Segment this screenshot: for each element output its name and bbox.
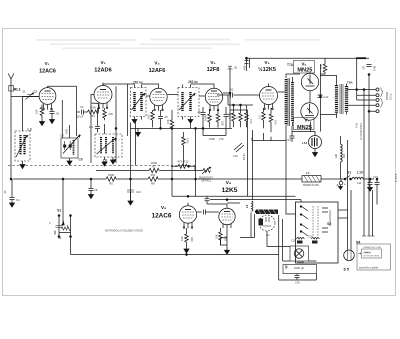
- buffer capacitor C7b: [283, 265, 316, 285]
- svg-text:470: 470: [319, 64, 323, 69]
- svg-text:C20: C20: [308, 236, 313, 239]
- svg-text:22K: 22K: [109, 112, 114, 116]
- svg-text:V₅: V₅: [264, 60, 269, 65]
- wire V1 plate: [48, 85, 77, 87]
- resistor R5 on A+ bus: [106, 173, 116, 186]
- page scan edge frame: [3, 29, 396, 296]
- spark plate L7: [302, 171, 321, 187]
- resistor R23: [182, 132, 189, 166]
- svg-text:12K5: 12K5: [222, 187, 238, 194]
- wire V4 screen row: [203, 128, 226, 135]
- tube V3 12AF6: [149, 61, 168, 111]
- svg-text:SPARK PLATE: SPARK PLATE: [303, 184, 319, 187]
- capacitor C8 agc: [89, 179, 98, 199]
- wire V9 plate coupling: [197, 196, 227, 214]
- svg-text:▮▮▮▮▮▮: ▮▮▮▮▮▮: [364, 251, 371, 254]
- wire vibrator to lamp: [267, 231, 290, 247]
- svg-text:A 4 OHM SPKR: A 4 OHM SPKR: [360, 123, 363, 140]
- capacitor C15: [368, 175, 380, 205]
- wire V3 plate: [167, 94, 178, 96]
- svg-text:400: 400: [342, 153, 346, 158]
- capacitor C48: [362, 65, 377, 76]
- resistor R12: [171, 127, 196, 196]
- svg-text:12AC6: 12AC6: [152, 213, 172, 220]
- svg-text:360: 360: [151, 173, 156, 177]
- wire antenna down-lead: [11, 97, 40, 180]
- wire filament A+ bus y179: [13, 178, 374, 180]
- wire V2 grid return: [90, 103, 92, 163]
- vibrator buffer leads: [279, 215, 283, 261]
- choke RF1: [291, 238, 304, 244]
- svg-text:45B+: 45B+: [244, 64, 247, 70]
- capacitor C14: [286, 126, 311, 142]
- wire upper coupling bus: [172, 196, 301, 203]
- svg-text:C19: C19: [291, 240, 296, 243]
- transformer T7: [286, 63, 300, 126]
- IF transformer T5: [178, 80, 199, 123]
- svg-text:SPKR: SPKR: [385, 91, 389, 100]
- svg-text:R2: R2: [58, 236, 62, 240]
- volume control R2: [49, 179, 71, 240]
- svg-text:262 kc: 262 kc: [133, 81, 143, 85]
- tube V9 12AC6: [152, 203, 197, 229]
- switch S1: [344, 171, 351, 180]
- junction dots on A+ bus: [62, 178, 64, 180]
- svg-text:47K: 47K: [166, 119, 170, 124]
- resistor R15: [235, 110, 243, 127]
- svg-text:470K: 470K: [228, 113, 232, 119]
- svg-text:C 15 A: C 15 A: [394, 173, 398, 182]
- choke RF2: [308, 236, 319, 244]
- svg-text:2.2: 2.2: [258, 115, 262, 119]
- wire to V2 grid: [91, 95, 99, 113]
- resistor R7: [149, 161, 159, 173]
- chassis dashed line: [8, 165, 196, 167]
- svg-text:C48: C48: [373, 65, 377, 71]
- wire plate supply verticals: [248, 130, 253, 200]
- tube V7 MN25: [297, 103, 318, 131]
- svg-text:C1: C1: [16, 198, 20, 202]
- svg-text:5-80: 5-80: [66, 129, 69, 134]
- resistor R22 100K: [283, 260, 317, 264]
- capacitor C13: [318, 95, 329, 99]
- svg-text:47K: 47K: [219, 137, 224, 141]
- svg-text:22K: 22K: [221, 121, 225, 126]
- svg-text:.05: .05: [164, 115, 168, 119]
- wire V8 cathode down: [221, 230, 228, 251]
- choke L8: [245, 200, 253, 212]
- ground V9 cathode: [184, 246, 189, 253]
- IF transformer T4: [131, 81, 147, 124]
- svg-text:.05: .05: [362, 66, 366, 70]
- relay RL1: [9, 86, 21, 92]
- svg-text:L7: L7: [306, 171, 310, 175]
- wire V4 grid: [199, 95, 205, 97]
- wire volume to bus: [71, 237, 279, 255]
- svg-text:R8: R8: [151, 182, 155, 186]
- svg-text:262 kc: 262 kc: [188, 80, 198, 84]
- svg-text:10K: 10K: [180, 236, 184, 241]
- wire S4 drops: [364, 75, 373, 237]
- svg-text:C: C: [49, 222, 51, 225]
- wire vibrator leads: [240, 213, 255, 238]
- wire V4 stage bottom: [230, 110, 248, 130]
- svg-text:5 W: 5 W: [355, 123, 359, 128]
- wire AVC drop: [130, 123, 132, 202]
- svg-text:1000 μF: 1000 μF: [294, 266, 305, 270]
- resistor R21 under V4: [216, 110, 224, 128]
- svg-text:.05: .05: [197, 110, 201, 114]
- capacitor C16: [233, 143, 244, 158]
- svg-text:47K R12: 47K R12: [178, 160, 189, 164]
- resistor R20: [215, 228, 228, 245]
- svg-text:T8A: T8A: [347, 81, 354, 85]
- resistor R11 under V4: [204, 110, 212, 128]
- svg-text:12F8: 12F8: [207, 67, 220, 73]
- svg-text:BOTTOM VIEW: BOTTOM VIEW: [364, 256, 380, 258]
- wire T4 to V3 grid: [146, 95, 150, 97]
- wire S2 feeds: [286, 200, 348, 218]
- ground IF bus: [136, 128, 141, 136]
- svg-text:V₈: V₈: [226, 180, 231, 186]
- resistor R4: [88, 106, 99, 119]
- svg-text:470K: 470K: [186, 138, 189, 144]
- tube V1 12AC6: [39, 61, 56, 110]
- capacitor C22 under V4: [224, 107, 234, 128]
- battery terminal A: [337, 179, 347, 190]
- wire B+ screen stubs: [245, 58, 250, 71]
- svg-text:ADJ R13: ADJ R13: [201, 180, 211, 183]
- svg-text:3.2 Ω: 3.2 Ω: [389, 94, 393, 100]
- svg-text:VIBRATOR CONN: VIBRATOR CONN: [363, 246, 381, 249]
- svg-text:V₇: V₇: [305, 118, 310, 123]
- svg-text:150: 150: [274, 120, 278, 125]
- svg-text:R5: R5: [109, 182, 113, 186]
- svg-text:C8: C8: [94, 188, 98, 192]
- svg-text:V₃: V₃: [154, 61, 159, 66]
- speaker terminals: [347, 88, 393, 113]
- ground V1 cathode: [40, 119, 45, 126]
- svg-text:MOTOROLA GOLDEN VOICE: MOTOROLA GOLDEN VOICE: [105, 229, 143, 233]
- antenna coil L2: [15, 128, 32, 169]
- svg-text:V₉: V₉: [161, 205, 166, 211]
- tube V5 half 12K5: [258, 60, 278, 110]
- svg-text:100K: 100K: [204, 115, 208, 121]
- note legend box: [357, 244, 391, 270]
- wire AVC bus y170: [96, 170, 203, 172]
- meter S5: [344, 250, 355, 272]
- svg-text:C13: C13: [324, 95, 329, 99]
- wire B+ top bus: [247, 57, 370, 59]
- svg-text:L2: L2: [28, 128, 32, 132]
- cathode resistor R1: [35, 105, 44, 119]
- choke L9: [334, 136, 346, 179]
- wire S5 drops: [348, 140, 352, 250]
- wire V4 plate up: [223, 90, 230, 110]
- capacitor C20: [230, 66, 238, 91]
- svg-text:MN25: MN25: [297, 125, 312, 131]
- svg-text:C9: C9: [79, 158, 83, 162]
- tube V2 12AD6: [94, 60, 112, 109]
- svg-text:12AD6: 12AD6: [94, 68, 111, 74]
- svg-text:V₂: V₂: [100, 60, 105, 65]
- svg-text:.05: .05: [234, 66, 238, 70]
- label box V7: [294, 118, 315, 130]
- wire V2 screen feed: [116, 84, 128, 163]
- wire V5 plate: [278, 91, 287, 93]
- lamp J6: [290, 246, 309, 261]
- capacitor C21 under V4: [197, 107, 206, 128]
- svg-text:470: 470: [249, 119, 253, 124]
- capacitor C10: [127, 190, 141, 201]
- svg-text:.05 μF: .05 μF: [76, 115, 84, 119]
- svg-text:.05: .05: [3, 190, 7, 194]
- wire buffer bottom: [279, 261, 317, 280]
- capacitor C2A: [50, 109, 60, 117]
- svg-text:R7: R7: [152, 165, 156, 169]
- resistor R17: [258, 108, 266, 128]
- svg-text:V₄: V₄: [210, 60, 215, 65]
- wire V1 grid: [23, 97, 40, 132]
- wire R12 vertical: [172, 166, 195, 196]
- wire V5 bias bus: [228, 95, 253, 110]
- svg-text:T7A: T7A: [287, 63, 294, 67]
- svg-text:C3: C3: [80, 105, 84, 109]
- oscillator coil L5 L6: [95, 124, 122, 166]
- wire T7 secondary down: [285, 125, 287, 214]
- choke L10: [352, 171, 363, 186]
- svg-text:L12: L12: [302, 141, 308, 145]
- ground V1 bypass: [50, 117, 55, 124]
- wire IFT1 secondary return: [136, 120, 191, 166]
- transformer T8: [320, 76, 354, 119]
- svg-text:.01: .01: [22, 90, 26, 94]
- svg-text:S1: S1: [57, 209, 61, 213]
- svg-text:S 5: S 5: [344, 268, 349, 272]
- wire L3 primary lead: [61, 100, 63, 138]
- svg-text:C7b: C7b: [295, 281, 300, 285]
- svg-text:V₁: V₁: [45, 61, 50, 66]
- ground V8 cathode: [225, 250, 230, 254]
- svg-text:C4: C4: [60, 134, 64, 138]
- svg-text:C2: C2: [34, 90, 38, 94]
- wire IF bus y128: [131, 127, 233, 129]
- trimmer capacitor C2: [22, 90, 38, 100]
- speaker L12: [302, 122, 322, 157]
- wire osc feedback: [191, 84, 215, 85]
- wire rectifier B+: [310, 58, 337, 131]
- capacitor C9 below V3: [158, 110, 168, 128]
- capacitor C6: [89, 108, 100, 133]
- svg-text:C14: C14: [286, 138, 291, 142]
- resistor R10: [166, 110, 174, 167]
- svg-text:V₆: V₆: [302, 62, 307, 67]
- antenna: [8, 74, 14, 97]
- tube V4 12F8: [205, 60, 222, 111]
- tube V8 12K5: [219, 180, 238, 230]
- wire top bus drop right: [356, 58, 358, 89]
- svg-text:100: 100: [147, 114, 151, 119]
- svg-text:100K: 100K: [297, 260, 305, 264]
- svg-text:assembly y garble: assembly y garble: [359, 267, 379, 270]
- potentiometer R13 sensitivity: [199, 167, 214, 183]
- ground AVC: [128, 201, 133, 205]
- vibrator G1: [259, 215, 276, 237]
- resistor R16: [245, 110, 253, 127]
- label box V6: [294, 61, 315, 74]
- wire V5 grid: [217, 94, 260, 96]
- svg-text:12AC6: 12AC6: [39, 69, 56, 75]
- svg-text:1500: 1500: [108, 173, 115, 177]
- svg-text:RL1: RL1: [14, 88, 21, 92]
- svg-text:+: +: [344, 182, 346, 186]
- svg-text:R4: R4: [91, 114, 95, 118]
- svg-text:C16: C16: [233, 154, 238, 158]
- svg-text:100K: 100K: [209, 137, 215, 141]
- coil L3 trimmer box: [60, 125, 83, 165]
- capacitor C1: [3, 179, 20, 207]
- wire AVC vertical: [76, 86, 78, 136]
- svg-text:.05: .05: [56, 112, 60, 116]
- spark plate L11: [255, 210, 278, 215]
- svg-text:45 B+: 45 B+: [242, 153, 246, 160]
- tube V6 MN25: [297, 62, 318, 104]
- svg-text:14A: 14A: [357, 182, 362, 185]
- svg-text:C10: C10: [136, 190, 141, 194]
- svg-text:L8: L8: [245, 204, 249, 208]
- svg-text:S2: S2: [327, 222, 331, 226]
- svg-text:½12K5: ½12K5: [258, 66, 276, 73]
- wire V2 plate: [103, 84, 159, 86]
- capacitor C11: [230, 88, 234, 98]
- resistor R8 on A+ bus: [148, 173, 158, 186]
- svg-text:L9: L9: [334, 154, 338, 158]
- resistor R14: [228, 110, 236, 127]
- resistor R6: [103, 108, 114, 120]
- resistor R24: [319, 62, 327, 74]
- capacitor C3 coupling: [76, 105, 88, 119]
- svg-text:L10: L10: [357, 171, 363, 175]
- resistor R18: [269, 108, 277, 132]
- switch box S2: [296, 202, 339, 263]
- resistor R19: [180, 228, 194, 246]
- wire top bus drop left: [229, 67, 231, 70]
- svg-text:10K: 10K: [215, 234, 219, 239]
- resistor R9 below V3: [147, 110, 155, 128]
- wire V5 cathode bus: [252, 133, 286, 141]
- svg-text:220: 220: [35, 109, 39, 114]
- svg-text:12AF6: 12AF6: [149, 68, 166, 74]
- svg-text:R19: R19: [190, 237, 194, 242]
